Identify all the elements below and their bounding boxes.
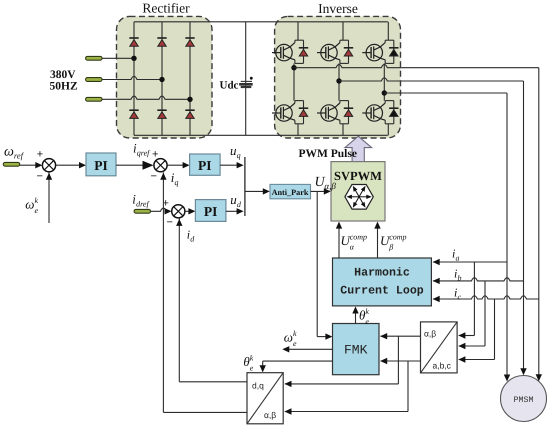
svg-text:ω: ω bbox=[284, 329, 293, 344]
svg-text:FMK: FMK bbox=[344, 343, 368, 358]
svg-text:PI: PI bbox=[204, 204, 218, 219]
svg-text:SVPWM: SVPWM bbox=[334, 169, 382, 183]
svg-text:β: β bbox=[388, 243, 393, 252]
svg-text:comp: comp bbox=[389, 233, 406, 242]
svg-text:380V: 380V bbox=[50, 69, 76, 81]
svg-text:e: e bbox=[35, 206, 39, 215]
svg-text:a,b,c: a,b,c bbox=[433, 361, 452, 371]
svg-text:comp: comp bbox=[350, 233, 367, 242]
svg-text:c: c bbox=[458, 293, 462, 302]
svg-text:k: k bbox=[250, 354, 254, 363]
svg-text:α,β: α,β bbox=[264, 410, 276, 420]
svg-text:Rectifier: Rectifier bbox=[142, 1, 190, 16]
svg-text:k: k bbox=[293, 329, 297, 338]
svg-text:Anti_Park: Anti_Park bbox=[272, 188, 309, 197]
svg-text:Harmonic: Harmonic bbox=[354, 267, 410, 280]
svg-text:Current Loop: Current Loop bbox=[340, 285, 424, 298]
svg-text:q: q bbox=[237, 151, 241, 160]
svg-text:q: q bbox=[175, 178, 179, 187]
svg-text:Inverse: Inverse bbox=[318, 1, 358, 16]
svg-text:e: e bbox=[365, 317, 369, 326]
svg-text:b: b bbox=[458, 274, 462, 283]
svg-text:α,β: α,β bbox=[324, 181, 336, 191]
svg-text:PI: PI bbox=[198, 158, 212, 173]
svg-text:50HZ: 50HZ bbox=[50, 81, 78, 93]
svg-text:ω: ω bbox=[4, 145, 14, 160]
svg-text:PI: PI bbox=[94, 158, 108, 173]
svg-text:dref: dref bbox=[136, 200, 150, 209]
svg-text:d,q: d,q bbox=[252, 381, 264, 391]
svg-text:PWM Pulse: PWM Pulse bbox=[299, 148, 357, 160]
svg-text:k: k bbox=[35, 196, 39, 205]
svg-text:Udc: Udc bbox=[220, 79, 239, 91]
svg-text:qref: qref bbox=[137, 149, 151, 158]
svg-text:ref: ref bbox=[14, 151, 25, 161]
svg-text:e: e bbox=[250, 364, 254, 373]
svg-text:k: k bbox=[365, 307, 369, 316]
svg-text:e: e bbox=[293, 339, 297, 348]
svg-text:+: + bbox=[37, 148, 43, 160]
svg-text:ω: ω bbox=[25, 197, 34, 212]
svg-text:a: a bbox=[456, 254, 460, 263]
svg-text:PMSM: PMSM bbox=[514, 396, 534, 405]
svg-text:α,β: α,β bbox=[424, 329, 436, 339]
svg-text:−: − bbox=[151, 171, 157, 183]
svg-text:−: − bbox=[37, 171, 43, 183]
svg-text:−: − bbox=[167, 217, 173, 229]
